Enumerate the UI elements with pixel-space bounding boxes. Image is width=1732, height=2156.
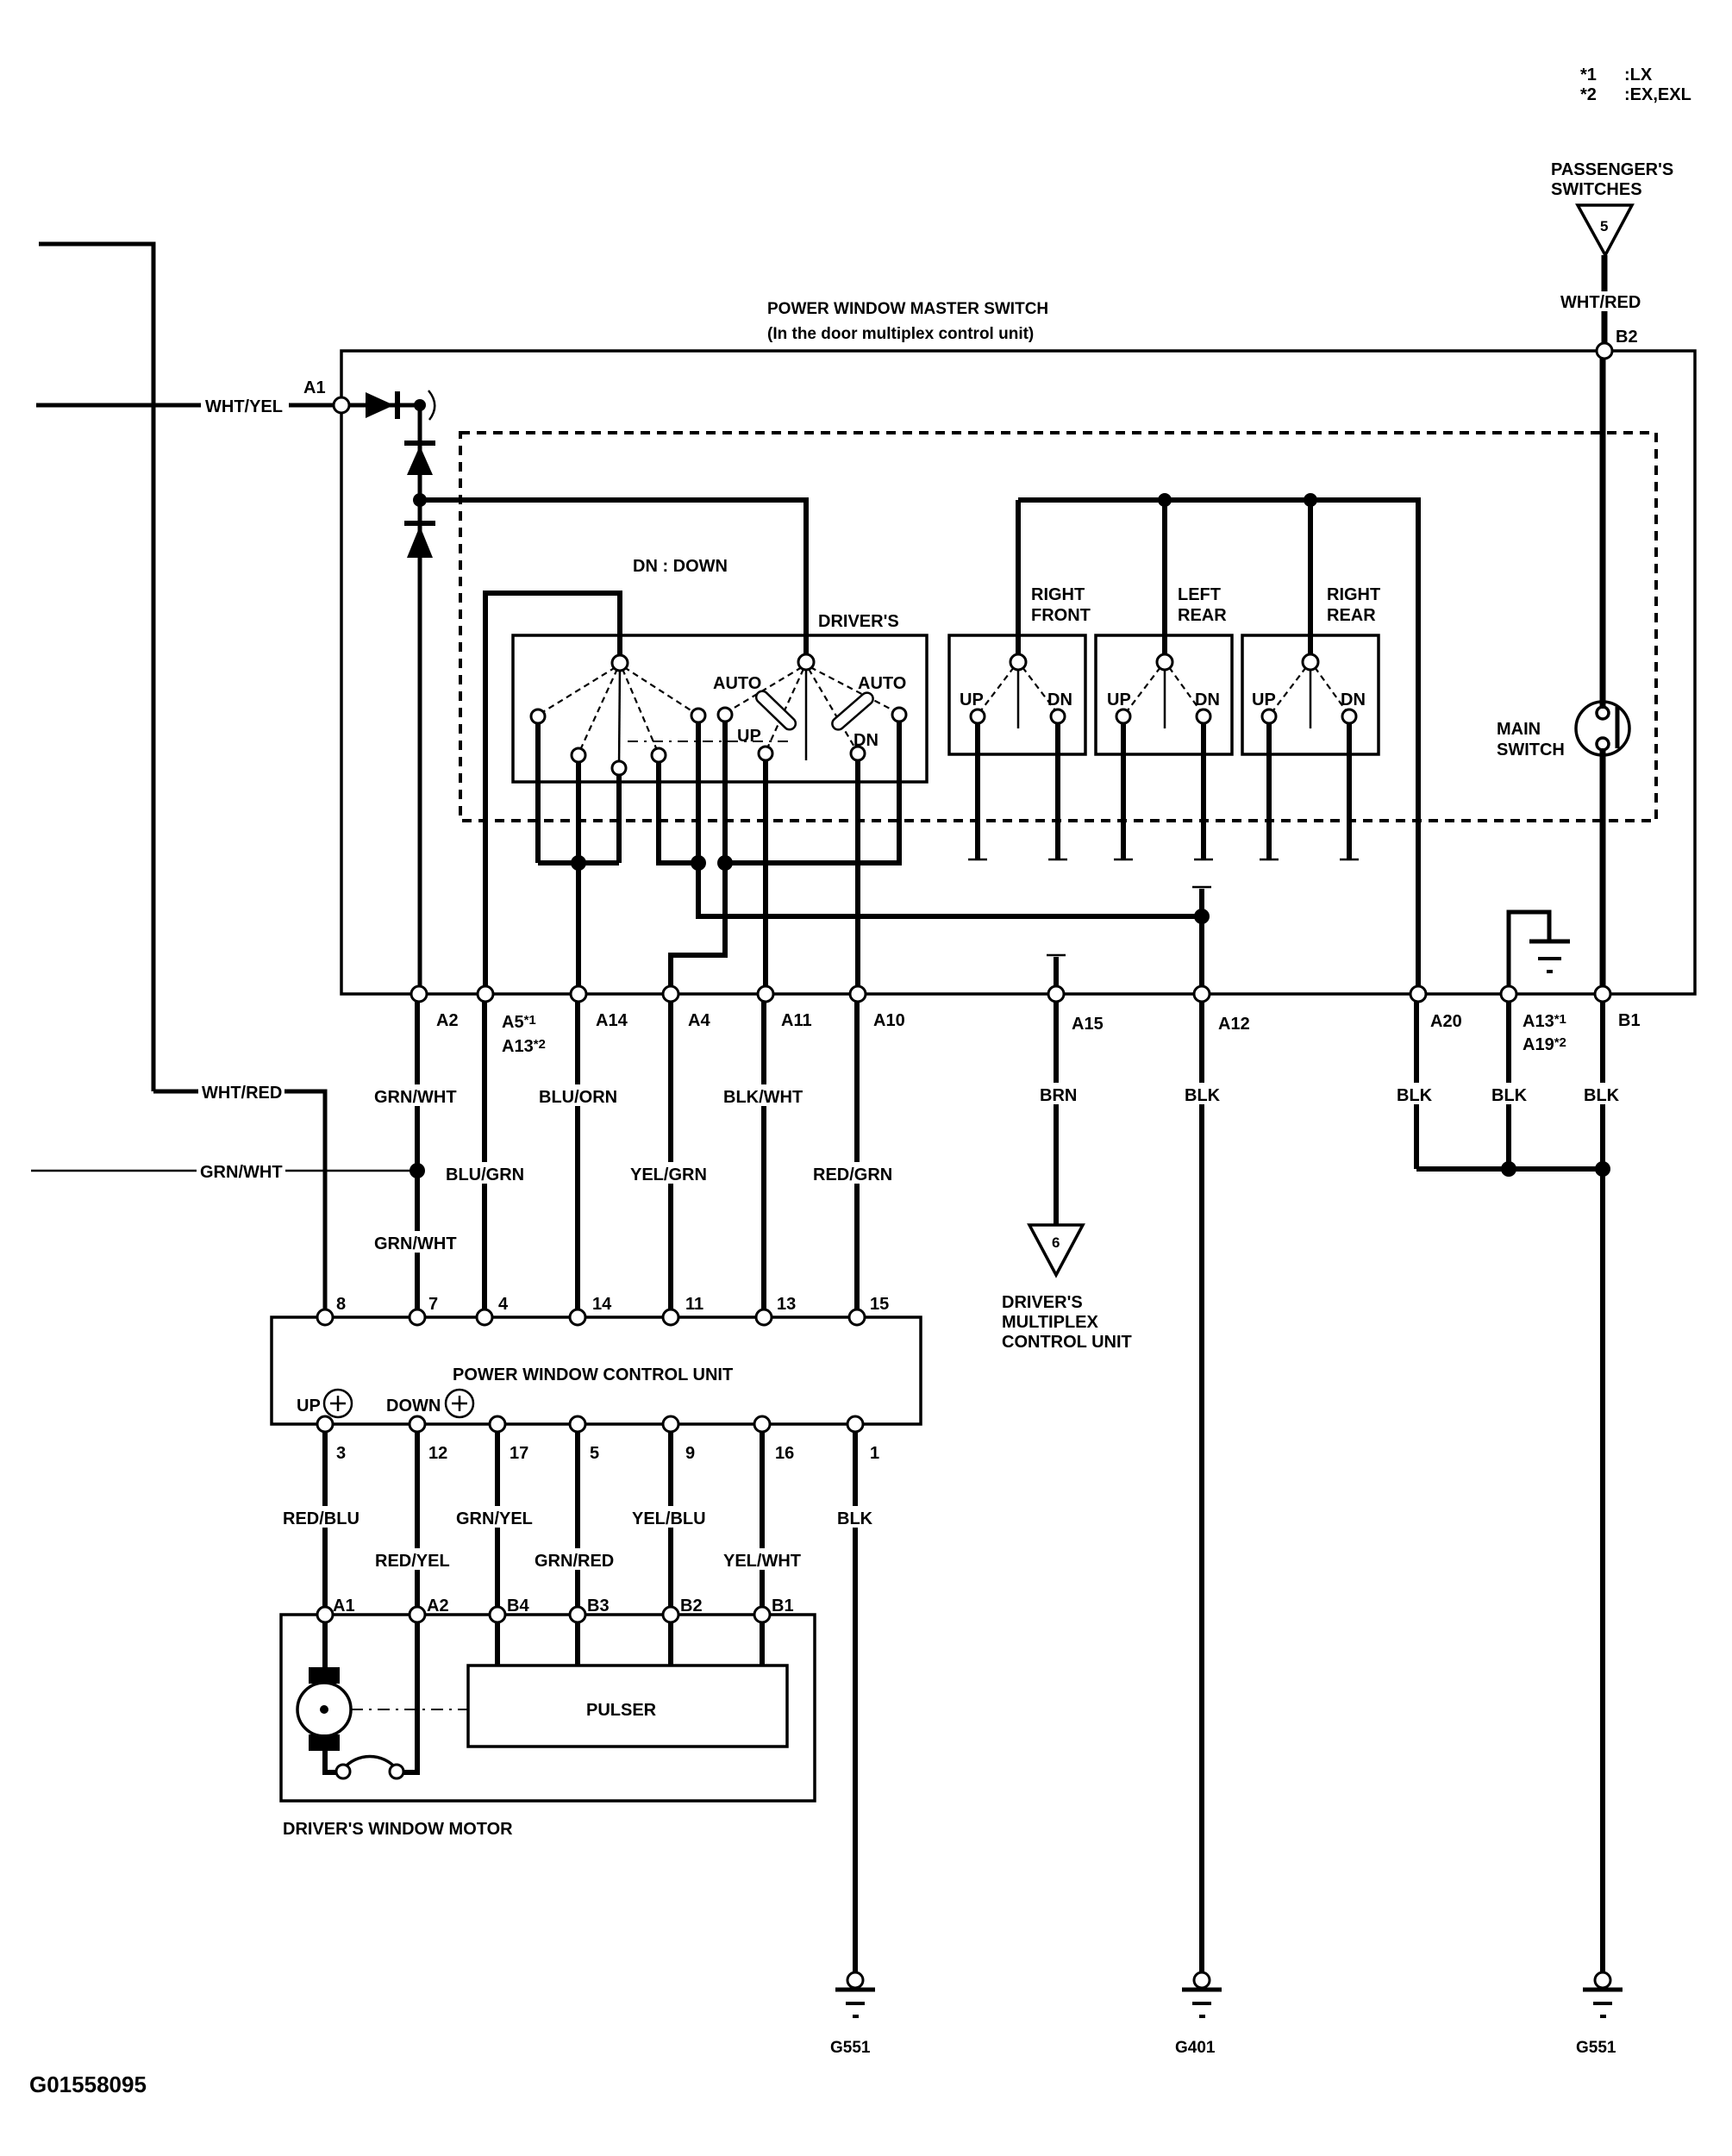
svg-text:GRN/WHT: GRN/WHT xyxy=(374,1234,457,1253)
svg-text:*1: *1 xyxy=(1580,66,1597,84)
motor terminal A1 xyxy=(317,1607,333,1622)
wire A5 below box xyxy=(482,1002,487,1317)
svg-text:UP: UP xyxy=(1252,691,1276,709)
svg-text:G01558095: G01558095 xyxy=(29,2072,147,2097)
pin 7 circle xyxy=(410,1309,425,1325)
label DRIVER'S MULTIPLEX CONTROL UNIT xyxy=(1002,1293,1132,1352)
wire pin9 to B2 xyxy=(668,1432,673,1615)
connector triangle 5 (passenger's switches) xyxy=(1578,205,1632,255)
junction merge at A13 wire xyxy=(1501,1161,1516,1177)
svg-text:UP: UP xyxy=(960,691,984,709)
svg-text:3: 3 xyxy=(336,1444,346,1463)
wire A20 below box xyxy=(1414,1002,1419,1169)
wire pin17 to B4 xyxy=(495,1432,500,1615)
svg-text:B2: B2 xyxy=(680,1597,703,1615)
svg-text:BLU/ORN: BLU/ORN xyxy=(539,1088,617,1107)
svg-text:A1: A1 xyxy=(333,1597,355,1615)
svg-text:A11: A11 xyxy=(781,1011,812,1030)
label BLK (A20) xyxy=(1393,1083,1435,1105)
brush circle right xyxy=(390,1765,403,1778)
label WHT/RED (passenger feed) xyxy=(1559,291,1642,312)
svg-text:POWER WINDOW CONTROL UNIT: POWER WINDOW CONTROL UNIT xyxy=(453,1365,733,1384)
svg-text:MULTIPLEX: MULTIPLEX xyxy=(1002,1313,1099,1332)
svg-text:REAR: REAR xyxy=(1178,606,1227,625)
label LEFT REAR xyxy=(1178,585,1227,625)
power window control unit box xyxy=(272,1317,921,1424)
wire pin5 to B3 xyxy=(575,1432,580,1615)
junction diode output node xyxy=(414,399,426,411)
junction A14 merge xyxy=(571,855,586,871)
wire A2 to brush xyxy=(403,1622,417,1772)
wire contact C2 down xyxy=(576,762,581,863)
label GRN/RED xyxy=(531,1548,619,1571)
label A5*1 A13*2 xyxy=(502,1013,546,1056)
motor terminal B3 xyxy=(570,1607,585,1622)
pin 13 circle xyxy=(756,1309,772,1325)
terminal A5/A13 xyxy=(478,986,493,1002)
contact circle C7 xyxy=(759,747,772,760)
contact circle C6 xyxy=(718,708,732,722)
wire B1 below box to G551 xyxy=(1600,1002,1605,1974)
wire WHT/RED from triangle 5 to B2 xyxy=(1602,255,1608,345)
wire right front DN xyxy=(1055,722,1060,859)
svg-text:8: 8 xyxy=(336,1295,346,1314)
contact circle C4 xyxy=(652,748,666,762)
svg-text:9: 9 xyxy=(685,1444,695,1463)
wire contact C5 down to A12 run xyxy=(698,722,1202,916)
svg-text:SWITCHES: SWITCHES xyxy=(1551,180,1642,199)
svg-text:B2: B2 xyxy=(1616,328,1638,347)
pulser box xyxy=(468,1665,787,1747)
svg-text:GRN/RED: GRN/RED xyxy=(535,1552,614,1571)
label GRN/WHT on A2 wire xyxy=(371,1084,460,1107)
terminal A12 xyxy=(1194,986,1210,1002)
svg-text:14: 14 xyxy=(592,1295,612,1314)
svg-text:DN: DN xyxy=(1047,691,1072,709)
wire merge C1-C3 to A14 xyxy=(538,860,619,866)
svg-text:11: 11 xyxy=(685,1295,703,1314)
motor M1 symbol xyxy=(297,1667,351,1751)
junction C4/C5 xyxy=(691,855,706,871)
pin 16 circle xyxy=(754,1416,770,1432)
wire right-front pivot feed xyxy=(1016,500,1021,662)
svg-text:*2: *2 xyxy=(1580,85,1597,104)
contact circle C8 xyxy=(851,747,865,760)
svg-text:YEL/WHT: YEL/WHT xyxy=(723,1552,801,1571)
wire contact C1 down xyxy=(535,723,541,863)
contact circle left rear DN xyxy=(1197,709,1210,723)
brush circle left xyxy=(336,1765,350,1778)
wire merge C6-C9 xyxy=(725,722,899,863)
motor terminal B4 xyxy=(490,1607,505,1622)
pin 17 circle xyxy=(490,1416,505,1432)
wire A14 vertical xyxy=(576,863,581,994)
svg-text:DN: DN xyxy=(1195,691,1220,709)
contact circle C2 xyxy=(572,748,585,762)
svg-text:13: 13 xyxy=(777,1295,796,1314)
driver's switch box xyxy=(513,635,927,782)
svg-text:B1: B1 xyxy=(1618,1011,1641,1030)
dashed fan left pivot xyxy=(541,667,695,750)
wire A10 below box xyxy=(854,1002,860,1317)
wire A4 below box xyxy=(668,1002,673,1317)
pin 14 circle xyxy=(570,1309,585,1325)
right front dashed fan xyxy=(981,667,1055,710)
svg-text:REAR: REAR xyxy=(1327,606,1376,625)
label BRN xyxy=(1036,1083,1079,1105)
wire right-rear pivot feed xyxy=(1308,500,1313,662)
wire WHT/RED routing from left vertical to pin 8 xyxy=(153,1091,325,1317)
wire A11 below box xyxy=(761,1002,766,1317)
svg-text:5: 5 xyxy=(590,1444,599,1463)
svg-text:DOWN: DOWN xyxy=(386,1397,441,1415)
svg-text:BLU/GRN: BLU/GRN xyxy=(446,1165,524,1184)
wire A12 below box to G401 xyxy=(1199,1002,1204,1974)
svg-text::LX: :LX xyxy=(1624,66,1653,84)
junction GRN/WHT at A2 wire xyxy=(410,1163,425,1178)
label A13*1 A19*2 xyxy=(1523,1012,1566,1054)
right front switch box xyxy=(949,635,1085,754)
wire A15 stub xyxy=(1054,957,1059,994)
tick right front DN xyxy=(1048,859,1067,861)
label GRN/YEL xyxy=(453,1506,539,1528)
label BLK (pin1) xyxy=(834,1506,875,1528)
svg-text:17: 17 xyxy=(510,1444,528,1463)
svg-text:A4: A4 xyxy=(688,1011,710,1030)
svg-text:12: 12 xyxy=(428,1444,447,1463)
terminal A20 xyxy=(1410,986,1426,1002)
brush arc xyxy=(344,1756,396,1768)
svg-text:B4: B4 xyxy=(507,1597,529,1615)
pin 1 circle xyxy=(847,1416,863,1432)
svg-text:WHT/RED: WHT/RED xyxy=(202,1084,282,1103)
label RIGHT FRONT xyxy=(1031,585,1091,625)
label BLK/WHT xyxy=(720,1084,806,1107)
label BLK (A12) xyxy=(1181,1083,1222,1105)
power window master switch box outline xyxy=(341,351,1695,994)
wire pin1 BLK to G551 xyxy=(853,1432,858,1974)
wire contact C4 down xyxy=(659,762,698,863)
svg-text:BRN: BRN xyxy=(1040,1086,1077,1105)
svg-text:(In the door multiplex control: (In the door multiplex control unit) xyxy=(767,325,1034,343)
wire left rear DN xyxy=(1201,722,1206,859)
svg-text:A15: A15 xyxy=(1072,1015,1104,1034)
svg-text:GRN/WHT: GRN/WHT xyxy=(374,1088,457,1107)
svg-text:BLK: BLK xyxy=(1491,1086,1528,1105)
wire right rear UP xyxy=(1266,722,1272,859)
svg-text:B1: B1 xyxy=(772,1597,794,1615)
svg-text:DN : DOWN: DN : DOWN xyxy=(633,557,728,576)
label GRN/WHT lower on A2 wire xyxy=(371,1231,460,1253)
diode D1 (horizontal at A1) xyxy=(349,391,435,420)
right rear pivot circle xyxy=(1303,654,1318,670)
label MAIN SWITCH xyxy=(1497,720,1565,759)
junction merge at B1 wire xyxy=(1595,1161,1610,1177)
tick right front UP xyxy=(968,859,987,861)
wire bus right section to A20 xyxy=(1018,500,1418,994)
junction bus/right-rear xyxy=(1304,493,1317,507)
auto capsule right xyxy=(830,691,876,733)
label BLU/GRN xyxy=(442,1162,528,1184)
svg-text:DRIVER'S: DRIVER'S xyxy=(818,612,899,631)
svg-text:DRIVER'S WINDOW MOTOR: DRIVER'S WINDOW MOTOR xyxy=(283,1820,513,1839)
junction A12 run xyxy=(1194,909,1210,924)
label RIGHT REAR xyxy=(1327,585,1380,625)
wire B2 to pulser xyxy=(668,1622,673,1665)
dash-dot motor to pulser xyxy=(351,1709,468,1710)
junction diode chain / bus node xyxy=(413,493,427,507)
svg-text:POWER WINDOW MASTER SWITCH: POWER WINDOW MASTER SWITCH xyxy=(767,300,1048,318)
wire pin12 to motor A2 xyxy=(415,1432,420,1615)
wire left-rear pivot feed xyxy=(1162,500,1167,662)
terminal A10 xyxy=(850,986,866,1002)
svg-text:A14: A14 xyxy=(596,1011,628,1030)
right front pivot arm xyxy=(1017,666,1020,728)
label BLK (B1) xyxy=(1580,1083,1622,1105)
svg-text:DN: DN xyxy=(1341,691,1366,709)
wire A12 stub up xyxy=(1199,889,1204,916)
wire ground merge A20/A13/B1 xyxy=(1416,1166,1603,1172)
label UP with circle-plus xyxy=(297,1390,352,1417)
terminal B2 circle xyxy=(1597,343,1612,359)
wire GRN/WHT stub from left xyxy=(31,1170,417,1172)
svg-text:GRN/YEL: GRN/YEL xyxy=(456,1509,533,1528)
main switch symbol xyxy=(1576,702,1629,755)
contact circle right front DN xyxy=(1051,709,1065,723)
right front pivot circle xyxy=(1010,654,1026,670)
right rear pivot arm xyxy=(1310,666,1312,728)
contact circle C1 xyxy=(531,709,545,723)
svg-text:SWITCH: SWITCH xyxy=(1497,741,1565,759)
auto capsule left xyxy=(753,689,797,732)
contact circle C5 xyxy=(691,709,705,722)
label YEL/WHT xyxy=(720,1548,806,1571)
label DOWN with circle-plus xyxy=(386,1390,473,1417)
svg-text:G551: G551 xyxy=(830,2039,871,2057)
junction A4 merge xyxy=(717,855,733,871)
motor terminal B2 xyxy=(663,1607,678,1622)
svg-text:RIGHT: RIGHT xyxy=(1031,585,1085,604)
svg-text:YEL/BLU: YEL/BLU xyxy=(632,1509,706,1528)
left rear switch box xyxy=(1096,635,1232,754)
wire B3 to pulser xyxy=(575,1622,580,1665)
terminal A13/A19 xyxy=(1501,986,1516,1002)
svg-text:G551: G551 xyxy=(1576,2039,1616,2057)
svg-text:PASSENGER'S: PASSENGER'S xyxy=(1551,160,1673,179)
wire right rear DN xyxy=(1347,722,1352,859)
svg-text:CONTROL UNIT: CONTROL UNIT xyxy=(1002,1333,1132,1352)
terminal B1 xyxy=(1595,986,1610,1002)
wire pin16 to B1 xyxy=(760,1432,765,1615)
wire A2 below box xyxy=(415,1002,420,1317)
pin 4 circle xyxy=(477,1309,492,1325)
wire WHT/YEL stub xyxy=(36,403,335,408)
label POWER WINDOW MASTER SWITCH title xyxy=(767,300,1048,343)
terminal A11 xyxy=(758,986,773,1002)
pin 3 circle xyxy=(317,1416,333,1432)
terminal A14 xyxy=(571,986,586,1002)
svg-text:PULSER: PULSER xyxy=(586,1701,657,1720)
driver's right pivot arm xyxy=(805,666,808,760)
wire A1 to motor xyxy=(322,1622,328,1669)
wire A4 step down xyxy=(671,863,725,994)
svg-text:RED/YEL: RED/YEL xyxy=(375,1552,450,1571)
svg-text:UP: UP xyxy=(1107,691,1131,709)
wire stub top left (y=283) xyxy=(39,244,153,1091)
pin 9 circle xyxy=(663,1416,678,1432)
label YEL/BLU xyxy=(628,1506,711,1528)
dashed inner box xyxy=(460,433,1656,821)
svg-text:A10: A10 xyxy=(873,1011,905,1030)
tick left rear UP xyxy=(1114,859,1133,861)
svg-text:6: 6 xyxy=(1052,1234,1060,1251)
wire B1 vertical lower xyxy=(1600,748,1606,994)
terminal A1 circle xyxy=(334,397,349,413)
wire bus from diode node to driver's pivot xyxy=(420,500,806,662)
driver's left pivot arm xyxy=(619,666,620,768)
svg-text:16: 16 xyxy=(775,1444,794,1463)
label PASSENGER'S SWITCHES xyxy=(1551,160,1673,199)
svg-text:LEFT: LEFT xyxy=(1178,585,1221,604)
tick right rear DN xyxy=(1340,859,1359,861)
svg-text:FRONT: FRONT xyxy=(1031,606,1091,625)
svg-text:BLK/WHT: BLK/WHT xyxy=(723,1088,803,1107)
wire B1 to pulser xyxy=(760,1622,765,1665)
tick A12 stub xyxy=(1192,886,1211,889)
label RED/BLU xyxy=(279,1506,366,1528)
wire pin3 to motor A1 xyxy=(322,1432,328,1615)
svg-text:BLK: BLK xyxy=(1185,1086,1221,1105)
pin 11 circle xyxy=(663,1309,678,1325)
ground G551 (right) xyxy=(1583,1972,1623,2016)
ground G401 xyxy=(1182,1972,1222,2016)
wire diode chain vertical to A2 xyxy=(418,405,422,994)
wire A15 below box to triangle 6 xyxy=(1054,1002,1059,1224)
contact circle left rear UP xyxy=(1116,709,1130,723)
chassis ground at A13/A19 inside box xyxy=(1509,912,1570,994)
label WHT/RED (left) xyxy=(198,1080,284,1103)
svg-text:A12: A12 xyxy=(1218,1015,1250,1034)
label YEL/GRN xyxy=(627,1162,713,1184)
svg-text:5: 5 xyxy=(1600,218,1608,234)
wire A13/A19 below box xyxy=(1506,1002,1511,1169)
motor terminal B1 xyxy=(754,1607,770,1622)
wire B1 vertical from B2 through main switch xyxy=(1600,351,1606,709)
right rear dashed fan xyxy=(1273,667,1346,710)
svg-text:15: 15 xyxy=(870,1295,889,1314)
terminal A15 xyxy=(1048,986,1064,1002)
wire A12 to terminal xyxy=(1199,916,1204,994)
svg-text:RIGHT: RIGHT xyxy=(1327,585,1380,604)
connector triangle 6 (driver's multiplex control unit) xyxy=(1029,1225,1083,1275)
wire contact C6 down xyxy=(722,722,728,863)
svg-text:A2: A2 xyxy=(436,1011,459,1030)
svg-text:AUTO: AUTO xyxy=(858,674,906,693)
pin 8 circle xyxy=(317,1309,333,1325)
svg-text:BLK: BLK xyxy=(837,1509,873,1528)
svg-text:G401: G401 xyxy=(1175,2039,1216,2057)
svg-text:WHT/YEL: WHT/YEL xyxy=(205,397,283,416)
driver's left pivot circle xyxy=(612,655,628,671)
svg-text:RED/BLU: RED/BLU xyxy=(283,1509,360,1528)
wire A14 below box xyxy=(575,1002,580,1317)
svg-text:AUTO: AUTO xyxy=(713,674,761,693)
left rear pivot circle xyxy=(1157,654,1172,670)
svg-text:GRN/WHT: GRN/WHT xyxy=(200,1163,283,1182)
junction bus/left-rear xyxy=(1158,493,1172,507)
svg-text:MAIN: MAIN xyxy=(1497,720,1541,739)
right rear switch box xyxy=(1242,635,1379,754)
svg-text:7: 7 xyxy=(428,1295,438,1314)
svg-text:B3: B3 xyxy=(587,1597,610,1615)
svg-text:A20: A20 xyxy=(1430,1012,1462,1031)
diode D2 (vertical, upper) xyxy=(404,443,435,475)
wire contact C8 to A10 xyxy=(855,760,860,994)
contact circle C9 xyxy=(892,708,906,722)
wire right front UP xyxy=(975,722,980,859)
svg-text:RED/GRN: RED/GRN xyxy=(813,1165,892,1184)
wire B4 to pulser xyxy=(495,1622,500,1665)
left rear dashed fan xyxy=(1128,667,1200,710)
dashed fan right pivot xyxy=(728,667,895,748)
pin 5 circle xyxy=(570,1416,585,1432)
contact circle right rear UP xyxy=(1262,709,1276,723)
dash-dot detent line xyxy=(628,741,791,742)
ground G551 (left) xyxy=(835,1972,875,2016)
label WHT/YEL xyxy=(201,394,289,416)
svg-text:UP: UP xyxy=(297,1397,321,1415)
svg-text:4: 4 xyxy=(498,1295,509,1314)
svg-text:BLK: BLK xyxy=(1584,1086,1620,1105)
svg-text:YEL/GRN: YEL/GRN xyxy=(630,1165,707,1184)
svg-text:1: 1 xyxy=(870,1444,879,1463)
svg-text:BLK: BLK xyxy=(1397,1086,1433,1105)
pin 15 circle xyxy=(849,1309,865,1325)
label BLK (A13/A19) xyxy=(1488,1083,1529,1105)
label BLU/ORN xyxy=(535,1084,622,1107)
tick A15 stub xyxy=(1047,954,1066,957)
wire motor to brush circle xyxy=(325,1751,337,1772)
tick left rear DN xyxy=(1194,859,1213,861)
svg-text:UP: UP xyxy=(737,727,761,746)
svg-text:WHT/RED: WHT/RED xyxy=(1560,293,1641,312)
label GRN/WHT (left stub) xyxy=(197,1159,285,1182)
pin 12 circle xyxy=(410,1416,425,1432)
tick right rear UP xyxy=(1260,859,1279,861)
contact circle C3 xyxy=(612,761,626,775)
label RED/YEL xyxy=(372,1548,458,1571)
wire contact C3 down xyxy=(616,775,622,863)
wire A5 to left pivot (up and over) xyxy=(485,593,620,994)
driver's window motor box xyxy=(281,1615,815,1801)
diode D3 (vertical, lower) xyxy=(404,523,435,558)
svg-text:DRIVER'S: DRIVER'S xyxy=(1002,1293,1083,1312)
svg-text:A1: A1 xyxy=(303,378,326,397)
motor terminal A2 xyxy=(410,1607,425,1622)
left rear pivot arm xyxy=(1164,666,1166,728)
contact circle right rear DN xyxy=(1342,709,1356,723)
wire contact C7 to A11 xyxy=(763,760,768,994)
wire left rear UP xyxy=(1121,722,1126,859)
label RED/GRN xyxy=(810,1162,897,1184)
svg-text:A2: A2 xyxy=(427,1597,449,1615)
contact circle right front UP xyxy=(971,709,985,723)
terminal A2 xyxy=(411,986,427,1002)
terminal A4 xyxy=(663,986,678,1002)
svg-text::EX,EXL: :EX,EXL xyxy=(1624,85,1691,104)
driver's right pivot circle xyxy=(798,654,814,670)
